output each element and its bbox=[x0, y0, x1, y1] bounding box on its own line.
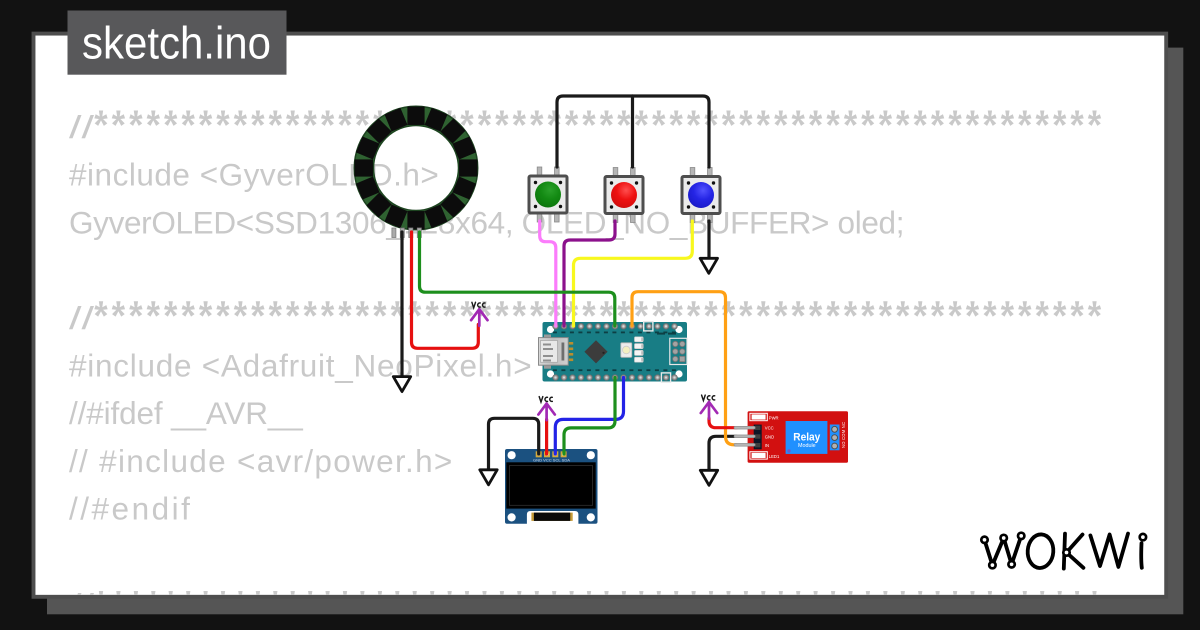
faded code text bbox=[69, 109, 1101, 623]
wire black oled GND to ground bbox=[489, 418, 539, 469]
wire red VCC to relay bbox=[709, 418, 737, 427]
oled notches bbox=[527, 511, 579, 524]
title tab bbox=[68, 11, 287, 75]
logo O bbox=[1027, 534, 1055, 569]
relay PWR led bbox=[750, 413, 767, 420]
svg-text:Module: Module bbox=[798, 443, 816, 449]
logo W2 bbox=[1090, 534, 1128, 567]
oled connector bbox=[531, 513, 572, 521]
nano pin labels bbox=[553, 332, 676, 372]
wire black buttons top rail bbox=[557, 96, 709, 167]
nano special pin boxes bbox=[644, 322, 653, 331]
wire pink green-button to nano D12 bbox=[540, 221, 556, 326]
svg-text:// #include <avr/power.h>: // #include <avr/power.h> bbox=[69, 443, 452, 479]
svg-text:#include <GyverOLED.h>: #include <GyverOLED.h> bbox=[69, 157, 439, 193]
oled pins bbox=[536, 451, 567, 457]
wire blue nano A5 to oled SCL bbox=[555, 378, 623, 455]
svg-text://: // bbox=[69, 300, 94, 336]
relay blue body bbox=[786, 421, 828, 454]
relay LED1 bbox=[750, 452, 767, 459]
wire red ring to VCC bbox=[412, 232, 479, 348]
relay board bbox=[748, 411, 848, 463]
nano mounting holes bbox=[547, 326, 683, 378]
logo nodes bbox=[981, 533, 1146, 569]
svg-text:PWR: PWR bbox=[769, 415, 779, 420]
svg-text://#ifdef __AVR__: //#ifdef __AVR__ bbox=[69, 395, 303, 431]
svg-text:GND VCC SCL SDA: GND VCC SCL SDA bbox=[533, 459, 571, 463]
svg-text://: // bbox=[69, 109, 94, 145]
wire yellow blue-button to nano D10 bbox=[574, 221, 693, 326]
asterisk row 1 bbox=[94, 111, 1101, 126]
svg-text:LED1: LED1 bbox=[769, 454, 780, 459]
ring LEDs bbox=[355, 107, 478, 230]
nano ICSP header bbox=[670, 338, 687, 364]
relay header block bbox=[754, 425, 762, 450]
ground (relay) bbox=[700, 470, 717, 485]
svg-text:Relay: Relay bbox=[793, 432, 821, 444]
nano passives bbox=[635, 337, 644, 362]
svg-text:#include <Adafruit_NeoPixel.h>: #include <Adafruit_NeoPixel.h> bbox=[69, 348, 532, 384]
vcc (nano 5V) bbox=[471, 302, 487, 326]
oled screen bbox=[506, 462, 595, 508]
vcc (relay) bbox=[701, 395, 717, 419]
wire black ring to ground bbox=[400, 232, 403, 376]
svg-text:VCC: VCC bbox=[765, 426, 774, 431]
button blue bbox=[682, 168, 720, 223]
oled holes bbox=[508, 451, 595, 521]
wire orange nano D3 to relay IN bbox=[632, 292, 737, 445]
ring pins bbox=[392, 228, 421, 238]
logo W1 bbox=[985, 536, 1022, 565]
vcc (oled) bbox=[538, 397, 554, 421]
relay terminal block bbox=[830, 425, 840, 451]
ring body bbox=[364, 116, 468, 220]
oled board bbox=[505, 449, 598, 524]
wire green nano A4 to oled SDA bbox=[564, 378, 615, 455]
asterisk row 2 bbox=[94, 301, 1101, 316]
nano board bbox=[543, 322, 688, 382]
button green bbox=[529, 167, 567, 222]
svg-text:IN: IN bbox=[765, 443, 769, 448]
wire black middle drop bbox=[631, 96, 634, 167]
button red bbox=[605, 168, 643, 223]
nano top pins bbox=[553, 324, 677, 329]
relay pin labels bbox=[765, 426, 774, 448]
nano USB bbox=[544, 335, 551, 338]
nano reset button bbox=[621, 343, 632, 358]
ground (buttons) bbox=[700, 258, 717, 273]
svg-text:sketch.ino: sketch.ino bbox=[82, 17, 271, 68]
wire red VCC to oled bbox=[545, 420, 548, 455]
wire black blue-button to ground bbox=[707, 221, 710, 260]
svg-text:NO COM NC: NO COM NC bbox=[841, 422, 846, 448]
svg-text:GyverOLED<SSD1306_128x64, OLED: GyverOLED<SSD1306_128x64, OLED_NO_BUFFER… bbox=[69, 204, 905, 240]
logo i bbox=[1139, 543, 1143, 568]
asterisk row 3 (clipped) bbox=[94, 591, 1101, 606]
ground (oled) bbox=[480, 470, 497, 485]
wire black ground to relay GND bbox=[709, 436, 737, 469]
wire purple red-button to nano D11 bbox=[564, 221, 615, 326]
nano usb contacts bbox=[569, 342, 573, 361]
nano MCU chip bbox=[584, 340, 607, 363]
svg-text:GND: GND bbox=[765, 434, 774, 439]
logo K bbox=[1064, 534, 1084, 569]
relay pin stubs bbox=[734, 426, 755, 446]
wokwi logo bbox=[981, 533, 1146, 569]
nano bottom pins bbox=[553, 375, 677, 380]
wire green ring to nano D5 bbox=[420, 232, 615, 326]
ground (neopixel) bbox=[393, 377, 410, 392]
